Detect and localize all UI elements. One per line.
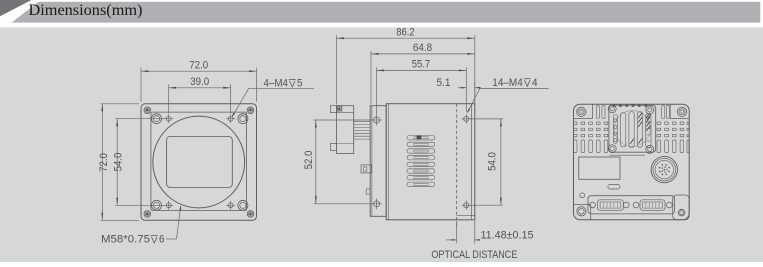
svg-text:14–M4: 14–M4 — [492, 77, 523, 89]
svg-text:54.0: 54.0 — [487, 152, 499, 171]
svg-text:54.0: 54.0 — [113, 153, 125, 172]
svg-text:4: 4 — [532, 77, 538, 89]
svg-text:86.2: 86.2 — [396, 26, 414, 38]
svg-text:OPTICAL DISTANCE: OPTICAL DISTANCE — [431, 249, 517, 261]
svg-text:4–M4: 4–M4 — [264, 78, 289, 90]
svg-text:Dimensions(mm): Dimensions(mm) — [29, 0, 143, 19]
svg-text:72.0: 72.0 — [98, 153, 110, 172]
svg-text:6: 6 — [159, 234, 165, 246]
svg-text:52.0: 52.0 — [303, 151, 315, 170]
svg-text:5.1: 5.1 — [437, 77, 451, 89]
svg-text:11.48±0.15: 11.48±0.15 — [481, 229, 534, 241]
svg-text:39.0: 39.0 — [190, 76, 209, 88]
svg-text:5: 5 — [297, 78, 303, 90]
svg-text:55.7: 55.7 — [412, 59, 430, 71]
svg-text:72.0: 72.0 — [189, 59, 208, 71]
svg-text:M58*0.75: M58*0.75 — [101, 234, 150, 246]
svg-text:64.8: 64.8 — [413, 42, 432, 54]
